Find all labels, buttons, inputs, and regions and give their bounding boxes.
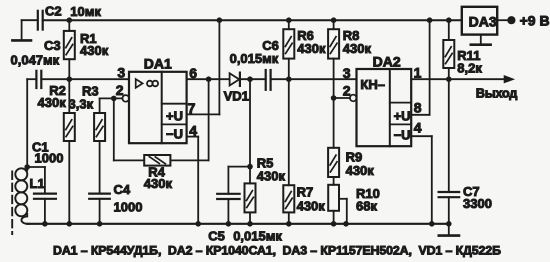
svg-text:4: 4 [414, 119, 422, 135]
output arrow [504, 76, 513, 83]
svg-text:+U: +U [394, 108, 411, 123]
label DA2 comparator symbol КН [360, 77, 385, 92]
resistor R1 [64, 20, 75, 79]
svg-text:DA1: DA1 [144, 55, 172, 71]
pin 3 label DA1 [117, 64, 125, 80]
label DA1 -U [166, 127, 183, 142]
pin DA1 inverting input circle [122, 95, 129, 102]
svg-text:R7: R7 [297, 184, 314, 199]
wire DA1 pin 7 to supply rail [187, 20, 220, 114]
capacitor C2 [38, 11, 43, 30]
pin DA2 inverting input circle [350, 95, 357, 102]
svg-text:2: 2 [116, 82, 124, 98]
node VD1 C6 R5 junction [247, 76, 253, 82]
label R10 68к [356, 186, 380, 214]
pin 3 label DA2 [343, 65, 351, 81]
capacitor C7 [439, 79, 460, 224]
capacitor C1 [27, 167, 56, 224]
label L1 [30, 176, 45, 191]
svg-text:L1: L1 [30, 176, 45, 191]
svg-text:C5: C5 [208, 228, 225, 243]
caption part list [53, 243, 501, 257]
resistor R7 [283, 79, 294, 224]
pin 2 label DA2 [343, 82, 351, 98]
label DA1 [144, 55, 172, 71]
diode VD1 [230, 73, 266, 86]
node R8 R9 pin2 junction [331, 95, 337, 101]
label R11 8,2к [457, 48, 482, 76]
node R8 top rail junction [331, 17, 337, 23]
pin 2 label DA1 [116, 82, 124, 98]
label R8 430к [343, 28, 372, 56]
svg-text:430к: 430к [80, 43, 109, 58]
svg-text:430к: 430к [38, 95, 67, 110]
capacitor C5 [217, 167, 250, 224]
ground chassis symbol bottom right [439, 224, 459, 236]
node R3 R4 pin2 junction [111, 96, 117, 102]
label C5 0,015мк [208, 228, 282, 243]
node DA2 pin4 bottom rail junction [429, 221, 435, 227]
wire DA1 pin 4 to ground rail [187, 137, 199, 224]
label R5 430к [257, 156, 286, 184]
resistor R5 [245, 79, 256, 224]
svg-text:3: 3 [117, 64, 125, 80]
svg-text:DA3: DA3 [469, 13, 497, 29]
pin 6 label DA1 [189, 65, 197, 81]
op-amp U DA1 box [129, 72, 187, 143]
wire DA3 output to +9V terminal [497, 19, 507, 21]
svg-text:1000: 1000 [114, 199, 143, 214]
svg-text:430к: 430к [346, 163, 375, 178]
node R1 C3 R2 junction [67, 76, 73, 82]
label DA2 [373, 53, 401, 69]
node R7 bottom rail junction [286, 221, 292, 227]
pin 4 label DA2 [414, 119, 422, 135]
label R2 430к [38, 83, 67, 110]
svg-text:C2: C2 [45, 3, 62, 18]
svg-text:68к: 68к [356, 199, 377, 214]
comparator U DA2 box [357, 69, 412, 146]
svg-text:1000: 1000 [35, 151, 64, 166]
label C7 3300 [463, 184, 492, 211]
wire R10 tap to rail [339, 199, 347, 224]
pin 1 label DA2 [414, 65, 422, 81]
svg-text:430к: 430к [297, 41, 326, 56]
svg-text:3,3к: 3,3к [69, 96, 94, 111]
svg-text:КН–: КН– [360, 77, 385, 92]
label C3 0,047мк [11, 38, 61, 68]
node DA1 output R4 junction [206, 76, 212, 82]
node pin4 bottom rail junction [195, 221, 201, 227]
label Выход [476, 85, 517, 100]
node R6 top rail junction [286, 17, 292, 23]
node R10 bottom rail junction [331, 221, 337, 227]
node R5 C5 junction [247, 164, 253, 170]
svg-text:430к: 430к [144, 176, 173, 191]
svg-text:3300: 3300 [463, 196, 492, 211]
label C2 10мк [45, 3, 101, 18]
node pin7 top rail junction [217, 17, 223, 23]
svg-text:430к: 430к [257, 169, 286, 184]
svg-text:C4: C4 [114, 182, 131, 197]
voltage regulator U DA3 box [462, 7, 497, 35]
node C1 bottom rail junction [42, 221, 48, 227]
resistor R9 [328, 98, 339, 185]
label R1 430к [80, 31, 109, 58]
label R4 430к [144, 164, 173, 191]
capacitor C3 [36, 71, 41, 88]
resistor R6 [283, 20, 294, 79]
ground chassis symbol under DA3 [471, 35, 491, 45]
node R2 bottom rail junction [67, 221, 73, 227]
svg-text:0,015мк: 0,015мк [233, 228, 282, 243]
label C1 1000 [32, 140, 63, 166]
label R9 430к [346, 150, 375, 178]
node C4 bottom rail junction [97, 221, 103, 227]
svg-text:10мк: 10мк [70, 4, 101, 19]
svg-text:430к: 430к [297, 198, 326, 213]
svg-text:Выход: Выход [476, 85, 517, 100]
wire C3 to DA1 pin 3 [41, 78, 129, 80]
wire DA1 pin 6 output [187, 78, 230, 80]
label DA2 +U [394, 108, 411, 123]
svg-text:−U: −U [166, 127, 183, 142]
capacitor C6 [266, 70, 271, 90]
node C5 bottom rail junction [226, 221, 232, 227]
svg-text:3: 3 [343, 65, 351, 81]
wire DA1 pin 2 input [100, 97, 123, 99]
svg-text:C3: C3 [44, 38, 61, 53]
resistor R10 [328, 185, 339, 224]
label DA1 +U [166, 109, 183, 124]
wire DA2 pin 4 to ground rail [411, 136, 432, 224]
node R11 output C7 junction [446, 76, 452, 82]
wire DA2 pin 1 output [411, 78, 505, 80]
resistor R2 [64, 79, 75, 224]
svg-text:0,047мк: 0,047мк [11, 52, 60, 67]
node C7 bottom rail junction [446, 221, 452, 227]
pin 4 label DA1 [189, 123, 197, 139]
resistor R3 [94, 98, 105, 193]
node R5 bottom rail junction [247, 221, 253, 227]
node top rail R1 junction [67, 17, 73, 23]
wire bottom ground rail [27, 223, 449, 225]
svg-text:DA1 – КР544УД1Б, DA2 – КР1040: DA1 – КР544УД1Б, DA2 – КР1040СА1, DA3 – … [53, 243, 501, 257]
op-amp DA1 amplifier symbol triangle and infinity [136, 79, 158, 88]
svg-text:8,2к: 8,2к [457, 61, 482, 76]
label DA3 [469, 13, 497, 29]
resistor R4 feedback [114, 79, 209, 165]
resistor R8 [328, 20, 339, 98]
terminal +9V [507, 16, 515, 24]
ground chassis symbol near C2 [12, 20, 37, 40]
svg-text:−U: −U [394, 127, 411, 142]
label +9 В [520, 13, 550, 29]
label C6 0,015мк [230, 38, 279, 66]
svg-text:VD1: VD1 [224, 88, 249, 103]
pin 8 label DA2 [414, 99, 422, 115]
wire C3 left to L1 top [27, 79, 36, 167]
wire C6 to DA2 pin 3 [271, 78, 357, 80]
node L1 C1 junction [24, 164, 30, 170]
label C4 1000 [114, 182, 143, 214]
node R10 tap rail junction [343, 221, 349, 227]
label VD1 [224, 88, 249, 103]
svg-text:8: 8 [414, 99, 422, 115]
svg-text:0,015мк: 0,015мк [230, 51, 279, 66]
capacitor C4 [89, 194, 110, 224]
node pin8 top rail junction [427, 17, 433, 23]
label R3 3,3к [69, 83, 99, 111]
label R7 430к [297, 184, 326, 213]
wire DA2 pin 8 to supply rail [411, 20, 429, 115]
shield dashed line of L1 [11, 172, 13, 235]
inductor L1 [15, 167, 29, 224]
label R6 430к [297, 28, 326, 56]
svg-text:1: 1 [414, 65, 422, 81]
wire top supply rail [43, 19, 462, 21]
svg-text:+9 В: +9 В [520, 13, 550, 29]
wire DA2 pin 2 input [334, 97, 350, 99]
svg-text:+U: +U [166, 109, 183, 124]
svg-text:DA2: DA2 [373, 53, 401, 69]
node R11 top rail junction [446, 17, 452, 23]
resistor R11 [443, 20, 454, 79]
svg-text:430к: 430к [343, 41, 372, 56]
label DA2 -U [394, 127, 411, 142]
pin 7 label DA1 [188, 100, 196, 116]
node R6 R7 pin3 junction [286, 76, 292, 82]
